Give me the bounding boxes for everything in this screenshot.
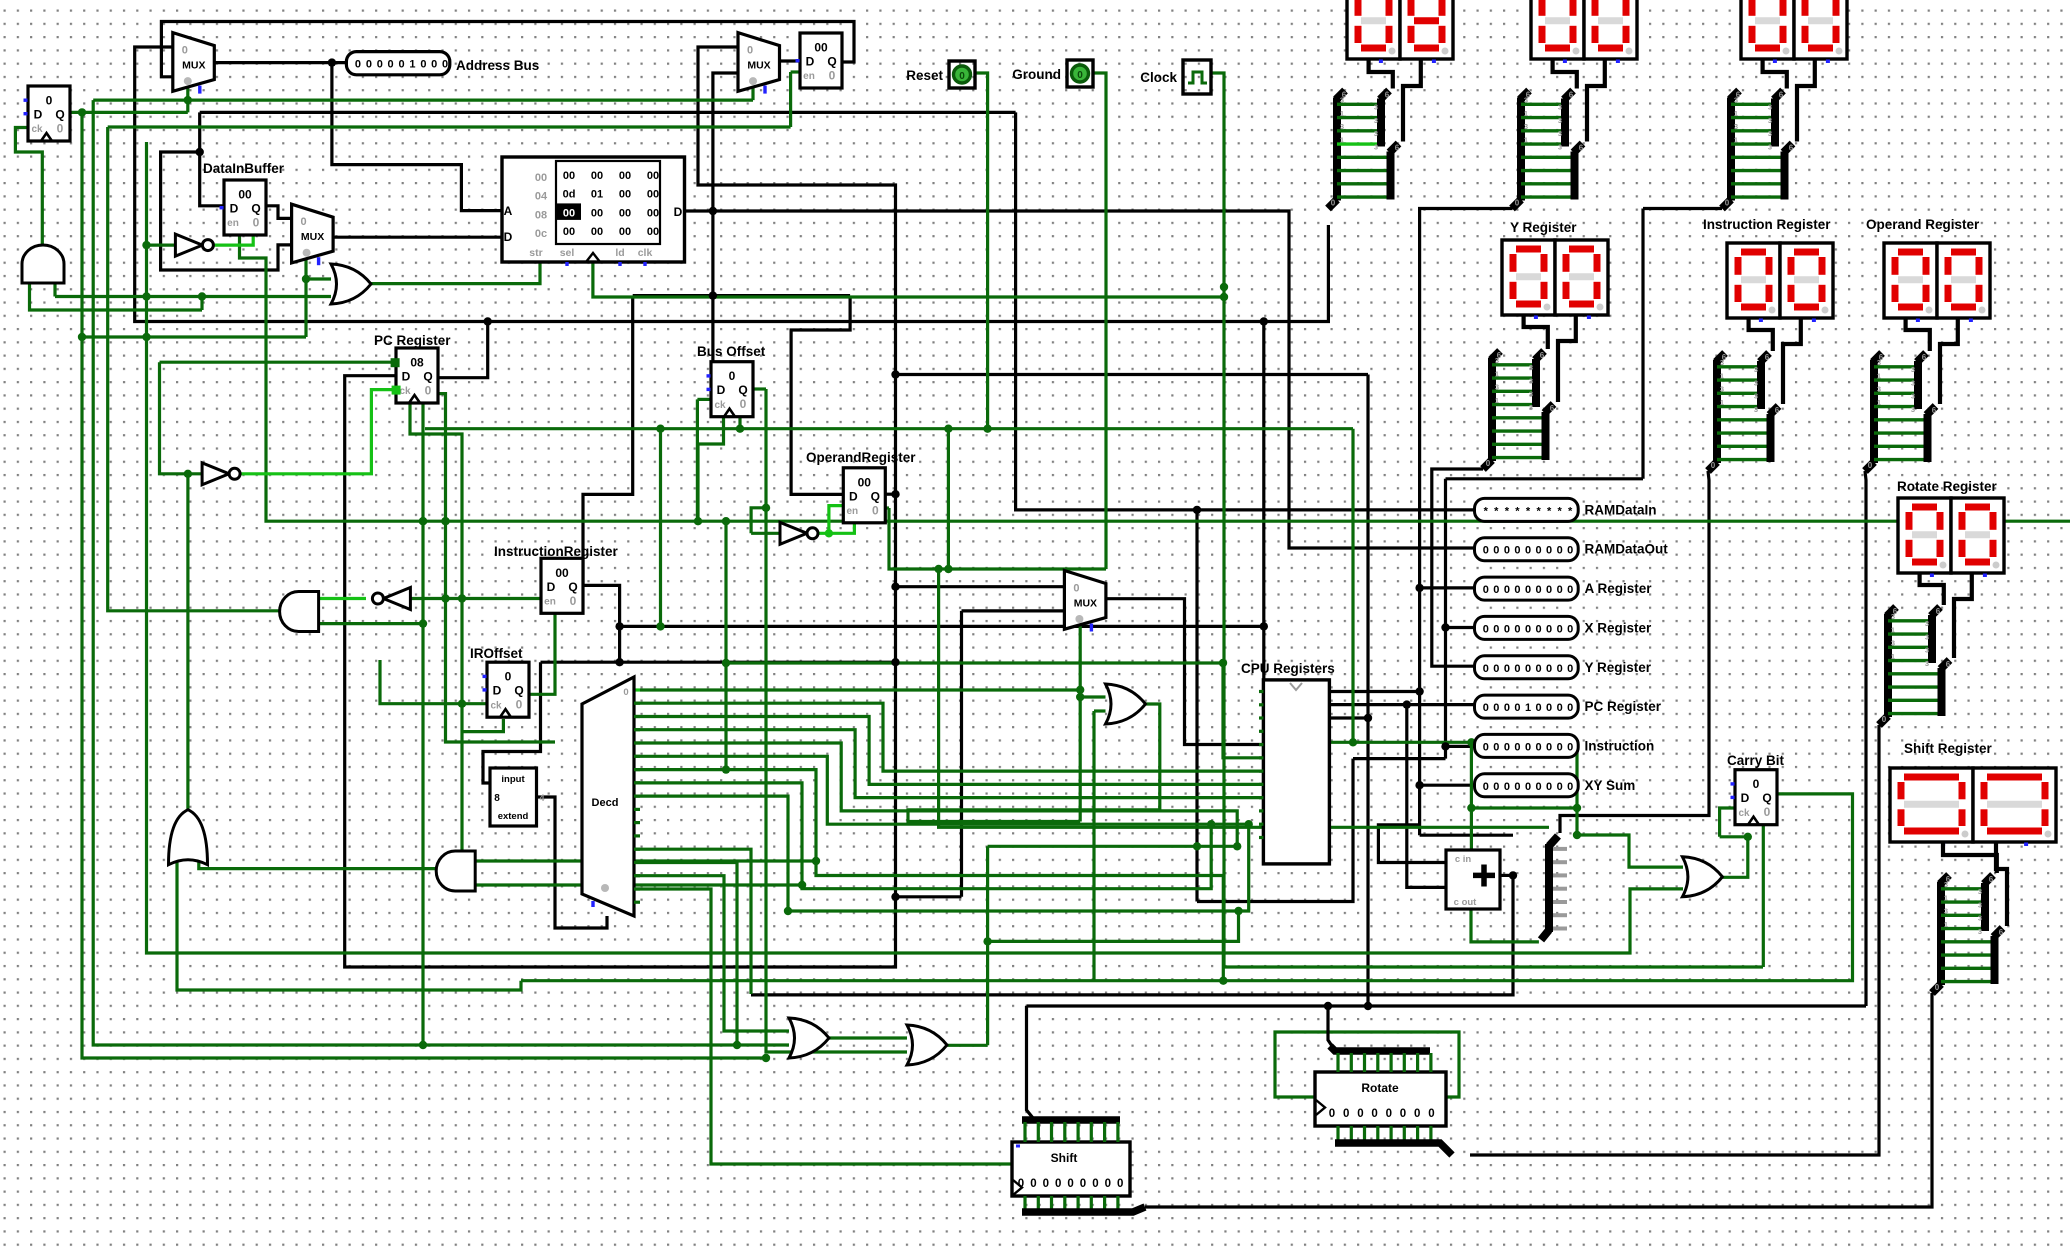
wire xyxy=(1223,663,1263,758)
wire junction xyxy=(722,517,730,525)
svg-text:3: 3 xyxy=(1529,403,1533,412)
svg-text:MUX: MUX xyxy=(1074,598,1097,610)
svg-text:3: 3 xyxy=(1558,142,1562,151)
svg-text:input: input xyxy=(501,774,525,785)
wire junction xyxy=(1441,742,1449,750)
wire xyxy=(1560,471,1709,833)
wire xyxy=(751,88,754,100)
wire xyxy=(698,416,724,521)
wire xyxy=(1092,711,1095,981)
wire xyxy=(633,294,850,297)
wire xyxy=(724,521,727,769)
svg-text:Carry Bit: Carry Bit xyxy=(1727,753,1785,768)
wire xyxy=(82,112,766,1058)
svg-text:3: 3 xyxy=(1374,103,1378,112)
wire junction xyxy=(302,275,310,283)
svg-text:1: 1 xyxy=(1340,135,1344,144)
adder xyxy=(1446,850,1500,909)
svg-text:0: 0 xyxy=(1043,1178,1049,1190)
svg-text:0: 0 xyxy=(1525,781,1531,793)
svg-text:MUX: MUX xyxy=(182,60,205,72)
wire junction xyxy=(722,765,730,773)
svg-text:0: 0 xyxy=(1536,623,1542,635)
svg-text:3: 3 xyxy=(1524,96,1528,105)
svg-text:3: 3 xyxy=(1558,129,1562,138)
svg-text:00: 00 xyxy=(591,170,603,182)
wire junction xyxy=(825,529,833,537)
wire junction xyxy=(762,504,770,512)
wire junction xyxy=(983,937,991,945)
wire xyxy=(634,730,1263,798)
svg-text:0: 0 xyxy=(1536,663,1542,675)
svg-text:00: 00 xyxy=(619,226,631,238)
svg-text:08: 08 xyxy=(410,356,424,370)
svg-text:Q: Q xyxy=(251,202,260,216)
wire xyxy=(1558,314,1576,402)
svg-text:D: D xyxy=(34,108,43,122)
wire junction xyxy=(1441,623,1449,631)
wire junction xyxy=(1219,977,1227,985)
probe probe Y Register xyxy=(1475,656,1652,679)
svg-text:PC Register: PC Register xyxy=(1585,699,1662,714)
wire xyxy=(1107,599,1263,745)
wire junction xyxy=(1324,1002,1332,1010)
svg-text:0: 0 xyxy=(1504,584,1510,596)
wire junction xyxy=(1467,804,1475,812)
wire junction xyxy=(1260,622,1268,630)
wire xyxy=(1577,835,1683,867)
wire xyxy=(1331,429,1353,743)
wire xyxy=(332,63,502,211)
wire xyxy=(711,890,1012,1164)
XY splitter gray xyxy=(1541,836,1567,940)
RAM xyxy=(502,157,685,266)
svg-text:0: 0 xyxy=(1557,545,1563,557)
svg-text:00: 00 xyxy=(858,475,872,489)
wire junction xyxy=(944,425,952,433)
register InstructionRegister xyxy=(541,558,583,613)
svg-text:0: 0 xyxy=(1567,623,1573,635)
wire xyxy=(1330,703,1475,706)
svg-text:0: 0 xyxy=(1386,1108,1392,1120)
svg-text:0: 0 xyxy=(1483,545,1489,557)
wire xyxy=(1420,784,1475,787)
svg-text:3: 3 xyxy=(1925,659,1929,668)
svg-text:6: 6 xyxy=(1932,406,1937,415)
svg-text:0: 0 xyxy=(425,384,432,398)
svg-text:Shift Register: Shift Register xyxy=(1904,741,1993,756)
wire junction xyxy=(142,292,150,300)
wire xyxy=(696,399,699,521)
wire xyxy=(1369,59,1393,89)
wire xyxy=(108,127,280,611)
probe probe RAMDataOut xyxy=(1475,538,1669,561)
wire junction xyxy=(1245,820,1253,828)
inverter NOT3 xyxy=(780,522,818,544)
svg-text:Clock: Clock xyxy=(1140,70,1177,85)
7-segment display dispY xyxy=(1502,240,1608,319)
wire xyxy=(882,506,889,509)
svg-text:0: 0 xyxy=(1567,663,1573,675)
wire xyxy=(93,98,753,101)
register FF0 xyxy=(24,86,71,141)
wire xyxy=(988,911,1239,941)
svg-text:0: 0 xyxy=(1504,623,1510,635)
wire junction xyxy=(1233,842,1241,850)
wire xyxy=(752,387,767,390)
wire xyxy=(634,848,751,852)
wire xyxy=(380,660,462,704)
svg-text:0: 0 xyxy=(1525,663,1531,675)
display to splitter wires xyxy=(1920,572,1972,658)
svg-text:*: * xyxy=(1547,505,1552,517)
svg-text:3: 3 xyxy=(1754,405,1758,414)
svg-text:0: 0 xyxy=(1493,663,1499,675)
OR gate OR6 xyxy=(907,1025,947,1065)
svg-text:1: 1 xyxy=(1877,371,1881,380)
wire xyxy=(634,889,711,890)
CPU left pins xyxy=(1259,692,1263,838)
svg-text:0: 0 xyxy=(431,59,437,71)
svg-text:0: 0 xyxy=(1764,805,1771,819)
register OperandRegister xyxy=(843,468,885,523)
Shift bottom bus bar xyxy=(1022,1196,1145,1212)
svg-text:6: 6 xyxy=(1936,607,1941,616)
svg-text:Q: Q xyxy=(568,580,577,594)
svg-text:0: 0 xyxy=(1514,781,1520,793)
svg-text:0: 0 xyxy=(1515,199,1520,208)
wire xyxy=(1353,757,1446,760)
wire xyxy=(333,236,502,239)
svg-text:0: 0 xyxy=(1557,623,1563,635)
svg-text:3: 3 xyxy=(1340,96,1344,105)
wire xyxy=(1027,1004,1867,1007)
svg-text:3: 3 xyxy=(1911,365,1915,374)
svg-text:6: 6 xyxy=(1946,660,1951,669)
register BusOffset xyxy=(707,362,754,417)
svg-text:*: * xyxy=(1494,505,1499,517)
svg-text:DataInBuffer: DataInBuffer xyxy=(203,161,285,176)
svg-text:0: 0 xyxy=(1514,663,1520,675)
svg-text:Q: Q xyxy=(1762,791,1771,805)
multiplexer MUX4 xyxy=(1064,571,1106,632)
svg-text:3: 3 xyxy=(1925,619,1929,628)
svg-text:0: 0 xyxy=(1493,545,1499,557)
wire xyxy=(1524,314,1548,349)
svg-text:Ground: Ground xyxy=(1012,67,1061,82)
svg-text:0: 0 xyxy=(1504,741,1510,753)
svg-text:0: 0 xyxy=(1055,1178,1061,1190)
svg-text:en: en xyxy=(544,597,556,608)
svg-text:ck: ck xyxy=(1738,808,1750,819)
wire junction xyxy=(694,517,702,525)
svg-text:1: 1 xyxy=(1524,109,1528,118)
svg-text:0: 0 xyxy=(740,397,747,411)
svg-text:00: 00 xyxy=(647,207,659,219)
wire junction xyxy=(1076,693,1084,701)
svg-text:0: 0 xyxy=(1557,702,1563,714)
svg-text:3: 3 xyxy=(1529,376,1533,385)
wire xyxy=(1446,477,1644,480)
clock glyph xyxy=(1188,72,1207,83)
svg-text:*: * xyxy=(1515,505,1520,517)
sign extend box xyxy=(490,768,545,826)
svg-text:0: 0 xyxy=(1030,1178,1036,1190)
probe probe X Register xyxy=(1475,616,1653,639)
svg-text:3: 3 xyxy=(1734,122,1738,131)
wire junction xyxy=(184,470,192,478)
wire junction xyxy=(934,565,942,573)
wire xyxy=(780,59,801,62)
wire junction xyxy=(944,565,952,573)
wire xyxy=(304,250,307,337)
svg-text:00: 00 xyxy=(591,226,603,238)
7-segment display dispR xyxy=(1898,498,2004,577)
wire xyxy=(93,100,789,1045)
decoder output rungs xyxy=(634,703,640,902)
wire xyxy=(345,47,896,967)
display to splitter wires xyxy=(1943,842,2007,926)
wire xyxy=(1420,834,1513,837)
wire junction xyxy=(1193,506,1201,514)
wire xyxy=(1865,471,1866,1006)
svg-text:3: 3 xyxy=(1558,116,1562,125)
svg-text:0: 0 xyxy=(1483,623,1489,635)
wire junction xyxy=(1467,738,1475,746)
svg-text:D: D xyxy=(547,580,556,594)
OR gate OR7 xyxy=(1106,684,1146,724)
wire xyxy=(161,152,292,270)
svg-text:Shift: Shift xyxy=(1051,1151,1078,1165)
wire xyxy=(1353,741,1577,744)
svg-text:00: 00 xyxy=(563,207,575,219)
probe probe XY Sum xyxy=(1475,774,1636,797)
svg-text:0: 0 xyxy=(1536,741,1542,753)
Shift top bus bar xyxy=(1022,1120,1120,1142)
svg-text:extend: extend xyxy=(498,811,529,822)
wire xyxy=(410,597,541,600)
wire junction xyxy=(762,1054,770,1062)
Rotate bottom bus bar xyxy=(1335,1126,1452,1155)
wire xyxy=(318,597,366,600)
wire xyxy=(634,688,640,691)
wire junction xyxy=(656,425,664,433)
svg-text:00: 00 xyxy=(619,170,631,182)
svg-text:0: 0 xyxy=(1343,1108,1349,1120)
svg-text:RAMDataOut: RAMDataOut xyxy=(1585,542,1669,557)
Shift block xyxy=(1012,1142,1130,1196)
wire xyxy=(975,73,988,429)
wire xyxy=(1954,572,1972,658)
bus splitter lad3 xyxy=(1722,91,1794,209)
wire xyxy=(199,848,436,869)
svg-text:00: 00 xyxy=(619,207,631,219)
svg-text:6: 6 xyxy=(1989,875,1994,884)
svg-text:4: 4 xyxy=(539,793,544,803)
svg-text:6: 6 xyxy=(1395,144,1400,153)
svg-text:0: 0 xyxy=(1546,623,1552,635)
svg-text:0: 0 xyxy=(1486,459,1491,468)
wire xyxy=(1420,586,1475,589)
svg-text:0: 0 xyxy=(57,122,64,136)
AND gate AND3 xyxy=(436,851,475,891)
wire xyxy=(1195,510,1198,902)
svg-text:A Register: A Register xyxy=(1585,581,1653,596)
wire xyxy=(948,1044,988,1047)
wire xyxy=(829,506,843,534)
svg-text:ck: ck xyxy=(399,386,411,397)
svg-text:D: D xyxy=(806,55,815,69)
wire xyxy=(896,895,962,898)
bus splitter ladR xyxy=(1879,607,1951,725)
svg-text:*: * xyxy=(1568,505,1573,517)
wire xyxy=(475,859,816,862)
svg-text:ld: ld xyxy=(615,247,624,259)
wire xyxy=(160,362,203,474)
wire xyxy=(634,756,1249,824)
wire xyxy=(829,520,855,533)
7-segment display dispO xyxy=(1884,243,1990,322)
wire junction xyxy=(1076,686,1084,694)
svg-text:0: 0 xyxy=(46,94,53,108)
wire xyxy=(697,398,711,401)
wire xyxy=(751,875,1513,995)
svg-text:0: 0 xyxy=(1493,623,1499,635)
svg-text:0: 0 xyxy=(366,59,372,71)
wire xyxy=(1432,469,1483,666)
svg-text:0: 0 xyxy=(1357,1108,1363,1120)
svg-text:3: 3 xyxy=(1978,914,1982,923)
wire junction xyxy=(458,864,466,872)
svg-text:3: 3 xyxy=(1720,358,1724,367)
svg-text:0: 0 xyxy=(182,45,188,57)
svg-text:Y Register: Y Register xyxy=(1510,220,1577,235)
svg-text:0: 0 xyxy=(1105,1178,1111,1190)
wire junction xyxy=(419,619,427,627)
wire xyxy=(541,661,896,664)
wire junction xyxy=(615,622,623,630)
svg-text:3: 3 xyxy=(1734,96,1738,105)
svg-text:3: 3 xyxy=(1925,646,1929,655)
wire xyxy=(634,874,724,877)
bus splitter ladI xyxy=(1708,353,1780,471)
svg-text:0: 0 xyxy=(1504,663,1510,675)
svg-text:0: 0 xyxy=(1117,1178,1123,1190)
svg-text:6: 6 xyxy=(1385,91,1390,100)
CPU Registers block xyxy=(1241,661,1335,864)
svg-text:0: 0 xyxy=(1329,1108,1335,1120)
wire xyxy=(214,231,253,245)
wire junction xyxy=(1415,781,1423,789)
wire xyxy=(640,688,1080,691)
svg-text:04: 04 xyxy=(535,191,548,203)
wire xyxy=(82,335,306,338)
Rotate block xyxy=(1315,1072,1446,1126)
wire xyxy=(885,493,896,496)
svg-text:0: 0 xyxy=(747,45,753,57)
svg-text:0: 0 xyxy=(1514,623,1520,635)
wire junction xyxy=(184,96,192,104)
svg-text:*: * xyxy=(1526,505,1531,517)
wire xyxy=(939,569,1549,827)
svg-text:Q: Q xyxy=(871,489,880,503)
svg-text:3: 3 xyxy=(1768,142,1772,151)
wire junction xyxy=(891,583,899,591)
svg-text:D: D xyxy=(717,383,726,397)
bus splitter lad2 xyxy=(1512,91,1584,209)
svg-text:3: 3 xyxy=(1754,365,1758,374)
wire junction xyxy=(142,241,150,249)
svg-text:3: 3 xyxy=(1978,900,1982,909)
wire junction xyxy=(891,893,899,901)
wire junction xyxy=(1219,659,1227,667)
wire junction xyxy=(736,425,744,433)
wire xyxy=(1328,1006,1332,1046)
svg-text:0: 0 xyxy=(1546,663,1552,675)
wire xyxy=(1749,317,1773,351)
svg-text:3: 3 xyxy=(1911,405,1915,414)
OR gate OR2 xyxy=(169,810,208,865)
svg-text:Q: Q xyxy=(738,383,747,397)
svg-text:0: 0 xyxy=(420,59,426,71)
wire junction xyxy=(198,292,206,300)
wire xyxy=(829,1036,907,1039)
svg-text:3: 3 xyxy=(1877,358,1881,367)
display to splitter wires xyxy=(1906,317,1958,404)
svg-text:0: 0 xyxy=(1371,1108,1377,1120)
svg-text:6: 6 xyxy=(1550,404,1555,413)
svg-text:1: 1 xyxy=(1495,396,1499,405)
svg-text:0: 0 xyxy=(253,216,260,230)
wire xyxy=(177,848,521,990)
wire xyxy=(483,662,541,783)
wire xyxy=(634,796,788,911)
svg-text:0: 0 xyxy=(505,670,512,684)
svg-text:Q: Q xyxy=(827,55,836,69)
wire xyxy=(620,625,1264,628)
svg-text:A: A xyxy=(504,204,513,218)
svg-text:3: 3 xyxy=(1911,392,1915,401)
svg-text:0: 0 xyxy=(959,71,965,82)
svg-text:0: 0 xyxy=(1557,741,1563,753)
svg-text:0: 0 xyxy=(1567,584,1573,596)
wire junction xyxy=(484,317,492,325)
wire xyxy=(789,72,792,127)
wire xyxy=(108,125,791,128)
svg-text:D: D xyxy=(504,230,513,244)
wire xyxy=(1920,572,1944,605)
svg-text:ck: ck xyxy=(490,700,502,711)
wire junction xyxy=(142,333,150,341)
svg-text:6: 6 xyxy=(1579,144,1584,153)
svg-text:1: 1 xyxy=(1944,920,1948,929)
OR gate OR4 xyxy=(1682,857,1722,897)
svg-text:0: 0 xyxy=(1483,702,1489,714)
svg-text:3: 3 xyxy=(1495,383,1499,392)
clock input Clock xyxy=(1140,60,1211,94)
svg-text:0: 0 xyxy=(1525,623,1531,635)
wire junction xyxy=(328,58,336,66)
svg-text:0: 0 xyxy=(355,59,361,71)
wire xyxy=(462,719,503,732)
wire xyxy=(583,296,633,586)
svg-text:D: D xyxy=(402,370,411,384)
wire xyxy=(15,128,42,246)
svg-text:0: 0 xyxy=(1514,741,1520,753)
svg-text:0: 0 xyxy=(1557,584,1563,596)
svg-text:0: 0 xyxy=(1868,461,1873,470)
wire xyxy=(1027,1006,1034,1118)
